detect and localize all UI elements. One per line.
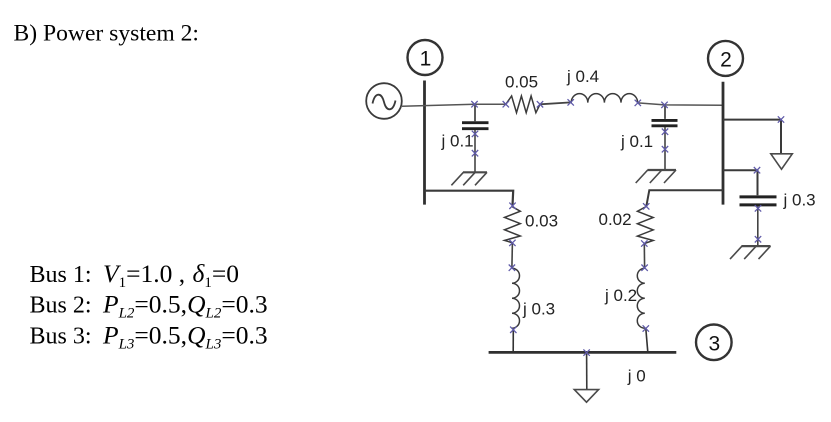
- wire resistor 0.03 to inductor j0.3: [511, 243, 514, 268]
- svg-text:0.05: 0.05: [505, 73, 538, 92]
- svg-text:Bus 1:: Bus 1:: [30, 262, 92, 288]
- capacitor j0.1 at bus1 stem bottom: [474, 130, 476, 172]
- junction capacitor j0.3 ground lead: [755, 236, 761, 242]
- terminal resistor 0.05 left: [503, 101, 509, 107]
- triangle ground at bus2: [771, 154, 793, 169]
- svg-text:j 0.1: j 0.1: [441, 131, 474, 150]
- terminal capacitor j0.3 bottom plate: [755, 205, 761, 211]
- svg-text:j 0: j 0: [627, 367, 646, 386]
- capacitor j0.1 at bus1 plates: [462, 123, 489, 129]
- terminal inductor j0.2 top: [641, 265, 647, 271]
- capacitor j0.3 plates: [740, 197, 777, 205]
- wire bus2 to resistor 0.02: [646, 190, 723, 206]
- terminal resistor 0.03 bottom: [509, 240, 515, 246]
- terminal resistor 0.02 bottom: [641, 240, 647, 246]
- inductor j0.2: [637, 268, 645, 328]
- terminal resistor 0.05 right: [537, 101, 543, 107]
- ground at bus1 capacitor: [451, 172, 487, 185]
- inductor j0.3: [512, 268, 520, 328]
- svg-text:Bus 3:: Bus 3:: [30, 324, 92, 350]
- svg-text:0.02: 0.02: [599, 210, 632, 229]
- resistor 0.03: [505, 207, 521, 243]
- ground at second capacitor: [636, 170, 676, 183]
- terminal inductor j0.3 top: [509, 265, 515, 271]
- node 3 circle: [696, 325, 732, 361]
- junction bus2 ground branch: [778, 116, 784, 122]
- generator G1: [366, 83, 402, 119]
- svg-text:j 0.2: j 0.2: [604, 286, 637, 305]
- svg-text:0.03: 0.03: [525, 212, 558, 231]
- capacitor j0.1 at line end stem top: [664, 105, 666, 119]
- wire bus2 to cap j0.3: [723, 170, 758, 195]
- terminal resistor 0.02 top: [643, 203, 649, 209]
- terminal inductor j0.2 bottom: [643, 325, 649, 331]
- capacitor j0.3 stem bottom: [757, 206, 759, 245]
- triangle ground at bus3: [574, 390, 598, 403]
- svg-text:3: 3: [708, 332, 720, 355]
- svg-text:j 0.3: j 0.3: [522, 300, 555, 319]
- junction bus3 ground branch: [583, 349, 589, 355]
- bus 1 bar: [423, 81, 426, 205]
- wire inductor j0.2 to bus3: [646, 328, 648, 352]
- capacitor j0.1 at line end stem bottom: [664, 127, 666, 169]
- terminal inductor j0.4 right: [635, 100, 641, 106]
- capacitor j0.1 at bus1 stem top: [474, 105, 476, 122]
- svg-text:2: 2: [720, 48, 732, 71]
- ground under cap j0.3: [730, 246, 771, 259]
- junction capacitor j0.1 left ground lead: [472, 150, 478, 156]
- wire bus2 to triangle ground: [723, 120, 781, 154]
- terminal capacitor j0.1 right bottom plate: [662, 129, 668, 135]
- wire resistor 0.02 to inductor j0.2: [643, 244, 645, 268]
- svg-text:V1=1.0 , δ1=0: V1=1.0 , δ1=0: [103, 259, 239, 291]
- wire gen to bus1 to cap junction: [402, 104, 506, 106]
- svg-text:B) Power system 2:: B) Power system 2:: [14, 21, 199, 47]
- bus 2 bar: [722, 82, 725, 205]
- junction bus1 shunt capacitor tap: [471, 101, 477, 107]
- svg-text:j 0.4: j 0.4: [566, 67, 599, 86]
- terminal capacitor j0.1 left bottom plate: [472, 131, 478, 137]
- resistor 0.02: [637, 207, 653, 244]
- wire inductor j0.3 to bus3: [512, 330, 514, 352]
- wire resistor to inductor: [540, 102, 571, 104]
- junction capacitor j0.1 right ground lead: [662, 146, 668, 152]
- terminal resistor 0.03 top: [509, 203, 515, 209]
- junction line shunt capacitor tap right: [661, 102, 667, 108]
- svg-text:j 0.3: j 0.3: [783, 191, 816, 210]
- svg-text:PL3=0.5,QL3=0.3: PL3=0.5,QL3=0.3: [102, 321, 268, 353]
- junction capacitor j0.3 top lead: [754, 167, 760, 173]
- capacitor j0.1 at line end plates: [652, 120, 678, 125]
- svg-text:PL2=0.5,QL2=0.3: PL2=0.5,QL2=0.3: [102, 290, 268, 322]
- wire bus1 to resistor 0.03: [425, 191, 514, 206]
- terminal inductor j0.4 left: [568, 99, 574, 105]
- node 1 circle: [408, 40, 443, 75]
- terminal inductor j0.3 bottom: [510, 327, 516, 333]
- wire inductor to bus2: [638, 103, 723, 105]
- resistor 0.05: [506, 96, 540, 113]
- node 2 circle: [708, 41, 743, 76]
- svg-text:1: 1: [420, 48, 432, 71]
- bus 3 bar: [489, 351, 677, 354]
- inductor j0.4: [571, 94, 637, 103]
- svg-text:Bus 2:: Bus 2:: [30, 293, 92, 319]
- svg-text:j 0.1: j 0.1: [620, 132, 653, 151]
- wire bus3 to triangle ground: [586, 353, 588, 390]
